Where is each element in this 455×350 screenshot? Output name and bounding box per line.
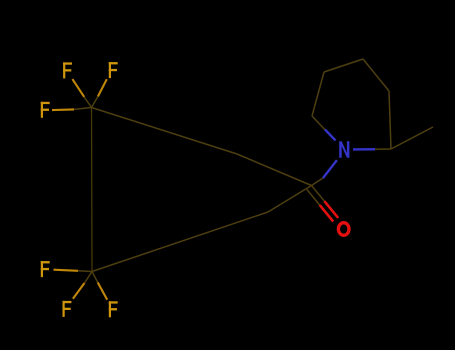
fluorine bonds bright halves (goldenrod) xyxy=(52,79,107,300)
ring bond N to P inner half xyxy=(325,130,336,141)
atom label F2 xyxy=(109,62,118,78)
nitrogen half-bonds (blue) xyxy=(323,130,375,179)
amide bond N-CC inner half xyxy=(323,160,337,178)
bond F6-C2 bright half xyxy=(98,282,108,299)
atom label F1 xyxy=(63,62,72,78)
oxygen half-bonds of C=O double bond (red) xyxy=(320,201,339,221)
atom label F5 xyxy=(63,301,72,317)
bond F2-C1 bright half xyxy=(98,79,107,96)
methyl bond Q to CH3 xyxy=(391,127,433,149)
atom label F3 xyxy=(41,102,50,118)
bond F3-C1 bright half xyxy=(52,108,74,111)
bond F1-C1 dark half xyxy=(84,97,91,108)
fluorine bonds dark carbon halves (olive) xyxy=(74,97,98,284)
ring bond P3 to P4 xyxy=(363,59,389,91)
bond F1-C1 bright half xyxy=(72,79,84,97)
bond F2-C1 dark half xyxy=(92,97,98,108)
C=O double bond main line red half xyxy=(324,201,338,218)
atom label O xyxy=(338,223,349,236)
wire: chain bond C2 to K xyxy=(92,212,268,272)
bond F5-C2 bright half xyxy=(73,283,85,299)
wire: chain bond C1 to T xyxy=(92,108,238,155)
bond F4-C2 bright half xyxy=(54,270,79,271)
wire: chain bond K to carbonyl C xyxy=(268,186,312,213)
atom label F4 xyxy=(41,261,50,277)
C=O double bond upper halves (olive) xyxy=(312,186,325,202)
C=O double bond second line upper half (olive) xyxy=(307,189,320,205)
atom label N xyxy=(339,141,349,158)
atom label F6 xyxy=(109,301,118,317)
ring bond P2 to P3 xyxy=(324,59,363,72)
bond F4-C2 dark half xyxy=(78,270,92,273)
ring bond N to Q outer half xyxy=(375,148,391,150)
C=O double bond second line red half xyxy=(320,205,334,221)
ring bond P to P2 xyxy=(312,72,324,116)
wire: bond C1-C2 vertical xyxy=(92,59,434,272)
ring bond N to Q inner half xyxy=(353,148,375,151)
ring bond N to P outer half xyxy=(312,116,326,130)
bond F5-C2 dark half xyxy=(85,272,93,284)
wire: chain bond T to carbonyl C xyxy=(237,154,312,186)
amide bond N-CC outer half xyxy=(312,178,324,186)
bond F3-C1 dark half xyxy=(74,108,92,110)
ring bond P4 to Q xyxy=(389,91,391,149)
bond F6-C2 dark half xyxy=(92,272,98,283)
